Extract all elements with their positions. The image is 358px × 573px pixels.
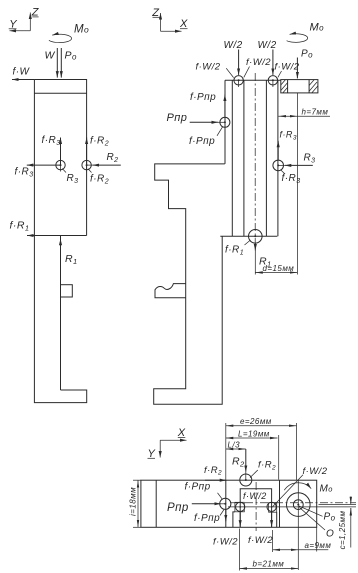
svg-text:f·W/2: f·W/2 — [275, 62, 300, 73]
axis line horizontal (dash-dot) — [230, 502, 356, 504]
label O with leader — [300, 508, 335, 540]
svg-text:e=26мм: e=26мм — [240, 417, 272, 426]
svg-text:b=21мм: b=21мм — [253, 560, 285, 569]
svg-text:f·W/2: f·W/2 — [196, 62, 221, 73]
svg-text:Mo: Mo — [74, 24, 89, 36]
dimension L/3 — [226, 441, 246, 450]
dimension d=15мм — [255, 264, 297, 273]
friction arrow f·W/2 right (down) — [271, 512, 273, 527]
workpiece column outline view 2 — [220, 80, 280, 236]
svg-text:Mo: Mo — [320, 484, 333, 495]
dimension h=7мм — [279, 107, 331, 116]
fixture bracket outline view 2 — [154, 164, 225, 404]
centerline vertical view 3 — [255, 482, 257, 531]
clamp lug with break arc view 2 — [155, 284, 186, 298]
svg-text:f·Pпр: f·Pпр — [190, 92, 216, 103]
force arrow R2 (left) — [93, 164, 121, 166]
force arrow R1 (up) — [60, 239, 62, 269]
svg-text:Po: Po — [324, 512, 336, 523]
svg-text:f·W/2: f·W/2 — [246, 57, 271, 68]
svg-text:i=18мм: i=18мм — [129, 487, 138, 516]
force arrow R2 (down) — [232, 449, 246, 480]
node R3 circle — [273, 160, 301, 185]
node Pnp circle view 3 — [194, 498, 231, 524]
friction arrow f·Pnp (down) — [225, 510, 227, 522]
force arrow W — [56, 48, 58, 78]
svg-text:f·Pпр: f·Pпр — [185, 482, 211, 493]
force arrow Pnp — [167, 502, 225, 514]
label f·W/2 right with leader — [275, 62, 300, 78]
bolt circle Po — [287, 493, 311, 517]
dimension b=21мм — [240, 529, 299, 571]
clamp plate with hatching — [281, 80, 318, 93]
svg-text:f·W: f·W — [13, 67, 31, 78]
svg-text:c=1,25мм: c=1,25мм — [338, 511, 347, 550]
svg-text:L=19мм: L=19мм — [238, 430, 270, 439]
force arrow Po — [60, 48, 62, 78]
svg-text:f·W/2: f·W/2 — [248, 535, 273, 546]
svg-text:W/2: W/2 — [224, 40, 243, 51]
centerline view 2 — [254, 73, 256, 244]
friction arrow f·R1 (down) — [225, 240, 255, 275]
svg-text:W: W — [45, 50, 56, 62]
svg-text:a=9мм: a=9мм — [305, 541, 332, 550]
dimension e=26мм — [226, 417, 297, 480]
node R3 circle — [56, 160, 79, 185]
node W/2 circle left — [234, 76, 243, 87]
svg-text:W/2: W/2 — [258, 40, 277, 51]
friction arrow f·R1 (left) — [27, 235, 87, 237]
force arrow Po — [296, 58, 298, 79]
force arrow W/2 left — [238, 50, 240, 75]
node R1 circle — [249, 230, 263, 244]
label f·W/2 top right with leader — [273, 466, 328, 507]
label f·W/2 left with leader — [196, 62, 234, 78]
contact line horizontal — [228, 506, 356, 508]
node R2 circle — [240, 474, 252, 486]
dimension L=19мм — [226, 430, 279, 480]
contact square left — [235, 502, 245, 512]
moment Mo symbol — [287, 22, 325, 43]
dimension c=1,25мм — [319, 497, 357, 550]
node Pnp circle — [189, 117, 230, 147]
friction arrow f·R3 (up) — [60, 138, 62, 166]
label Po with leader — [299, 506, 336, 523]
svg-text:f·Pпр: f·Pпр — [194, 513, 220, 524]
channel flange lines view 3 — [240, 489, 271, 528]
label f·Pnp upper with leader — [185, 482, 223, 499]
force arrow W/2 right — [272, 50, 274, 75]
friction arrow f·W — [12, 79, 34, 81]
svg-text:d=15мм: d=15мм — [263, 264, 295, 273]
svg-text:L/3: L/3 — [228, 441, 241, 450]
node W/2 circle right — [268, 76, 277, 87]
axis X-Y — [148, 427, 187, 460]
part outline view 3 — [141, 480, 317, 527]
bolt centerline vertical view 3 — [297, 480, 299, 570]
moment Mo arc view 3 — [284, 483, 333, 495]
force arrow Pnp — [167, 112, 225, 124]
axis Z-X — [151, 7, 188, 31]
svg-text:f·W/2: f·W/2 — [303, 466, 328, 477]
friction arrow f·R3 (up) — [277, 141, 279, 161]
svg-text:f·Pпр: f·Pпр — [189, 136, 215, 147]
svg-text:Pпр: Pпр — [167, 502, 189, 514]
force arrow R3 (left) — [278, 153, 315, 166]
contact square right — [267, 502, 277, 512]
svg-text:f·W/2: f·W/2 — [243, 491, 267, 501]
svg-text:O: O — [326, 529, 334, 540]
svg-text:h=7мм: h=7мм — [302, 107, 329, 116]
axis Y-Z — [9, 7, 40, 31]
dimension a=9мм — [273, 527, 332, 552]
svg-text:f·W/2: f·W/2 — [213, 537, 238, 548]
bolt line — [296, 93, 298, 275]
friction arrow f·R2 (right) — [204, 465, 226, 480]
friction arrow f·Pnp (up) — [224, 95, 226, 117]
node R2 circle — [82, 160, 109, 185]
friction arrow f·W/2 left (down) — [239, 512, 241, 527]
part outline view 1 — [34, 80, 86, 403]
slot notch view 1 — [61, 285, 73, 297]
dimension i=18мм — [129, 480, 141, 527]
svg-text:Po: Po — [301, 49, 313, 60]
svg-text:Mo: Mo — [310, 22, 325, 34]
friction arrow f·R2 (up) — [86, 138, 88, 166]
friction arrow f·R3 (left face) — [27, 164, 61, 166]
svg-text:Pпр: Pпр — [167, 112, 188, 124]
moment Mo symbol — [49, 24, 89, 43]
label f·R2 right with leader — [250, 460, 276, 478]
label f·W/2 middle with leader — [244, 57, 271, 77]
